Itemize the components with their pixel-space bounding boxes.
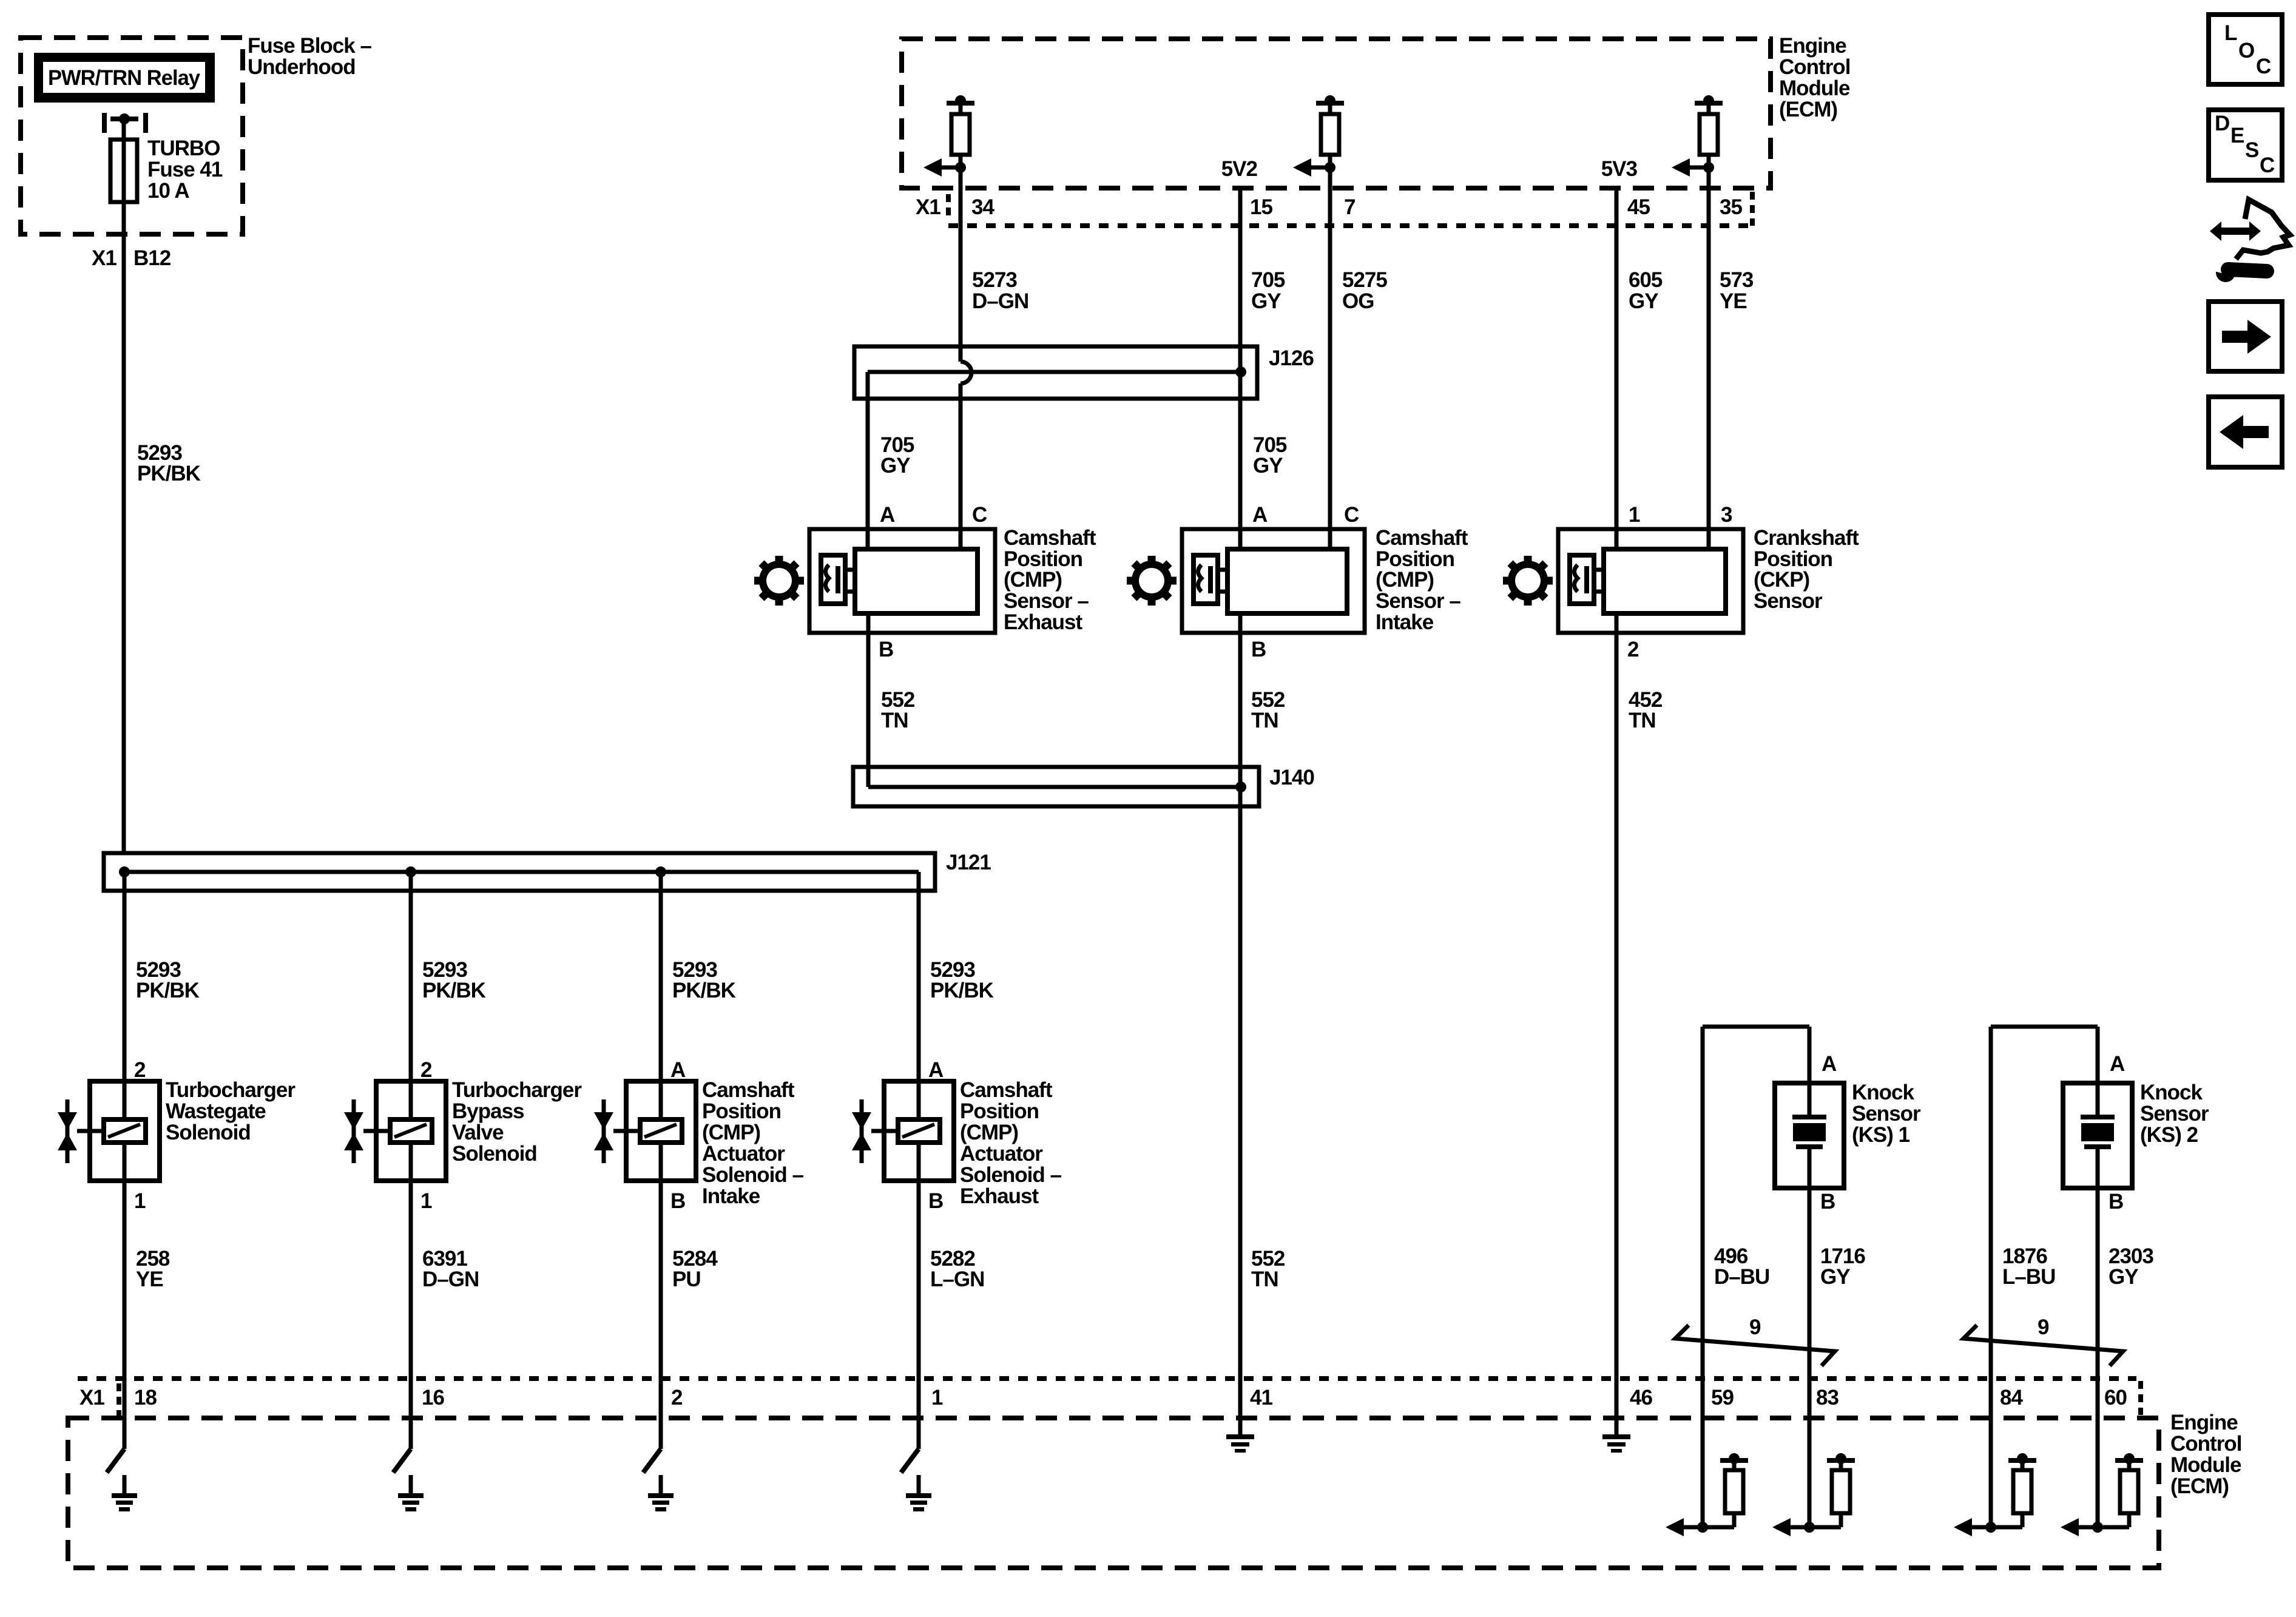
svg-text:45: 45 (1627, 195, 1650, 219)
svg-text:5V2: 5V2 (1221, 157, 1258, 181)
svg-text:GY: GY (1629, 289, 1658, 313)
splice J126 box (854, 346, 1257, 399)
svg-text:Solenoid –: Solenoid – (960, 1163, 1062, 1187)
J121 internal wire (124, 870, 919, 874)
svg-text:Position: Position (702, 1099, 781, 1123)
wire 6391 to ECM (409, 1181, 413, 1449)
solenoid turbocharger bypass valve solenoid (376, 1081, 446, 1181)
wire 705 GY (J126 to CMP intake A) (1238, 372, 1243, 549)
wire 5293 PK/BK drop 3 (659, 872, 663, 1081)
icon box DESC (2209, 110, 2282, 180)
svg-text:TN: TN (881, 709, 908, 732)
resistor R6 with arrow (pin 84) (1957, 1525, 2022, 1530)
svg-text:Camshaft: Camshaft (1004, 526, 1096, 550)
svg-text:(CKP): (CKP) (1754, 568, 1809, 592)
svg-text:18: 18 (134, 1386, 157, 1409)
J126 internal wire (868, 370, 1241, 374)
wire 452 TN (CKP pin 2 to ECM pin 46) (1615, 613, 1619, 1437)
svg-text:16: 16 (422, 1386, 444, 1409)
svg-text:J140: J140 (1269, 766, 1314, 789)
svg-text:YE: YE (1720, 289, 1747, 313)
svg-text:35: 35 (1720, 195, 1742, 219)
svg-text:Exhaust: Exhaust (960, 1184, 1039, 1208)
wire 552 TN (CMP intake B to J140 to ECM pin 41) (1238, 613, 1243, 1437)
wire 5293 PK/BK drop 1 (123, 872, 127, 1081)
wire 5275 OG (pin 7 to CMP intake C) (1328, 188, 1332, 549)
resistor R2 in ECM (pin 7 feed) (1316, 101, 1344, 106)
svg-text:B: B (2109, 1190, 2123, 1214)
svg-text:83: 83 (1816, 1386, 1838, 1409)
splice J121 box (104, 853, 935, 891)
svg-text:59: 59 (1711, 1386, 1734, 1409)
svg-text:Solenoid: Solenoid (166, 1121, 251, 1144)
svg-text:Fuse Block –: Fuse Block – (248, 34, 371, 58)
svg-text:(CMP): (CMP) (960, 1121, 1018, 1144)
svg-text:L–BU: L–BU (2002, 1265, 2055, 1289)
wire 705 GY (pin 15 to J126) (1238, 188, 1243, 372)
svg-text:C: C (1344, 503, 1359, 527)
svg-text:Valve: Valve (452, 1121, 504, 1144)
wire 5273 D-GN (pin 34 to CMP exhaust C) with hop (959, 188, 963, 362)
twisted pair symbol (KS2) (1963, 1325, 2123, 1366)
svg-text:2: 2 (1627, 638, 1639, 661)
svg-text:TN: TN (1251, 709, 1278, 732)
gear icon (CKP) (1511, 564, 1544, 597)
svg-text:Position: Position (960, 1099, 1039, 1123)
resistor R1 in ECM (pin 34 feed) (947, 101, 974, 106)
svg-text:Knock: Knock (2140, 1081, 2203, 1104)
svg-text:Solenoid –: Solenoid – (702, 1163, 804, 1187)
knock sensor KS1 body and wires (1703, 1025, 1809, 1029)
svg-text:C: C (2256, 55, 2271, 78)
svg-text:L–GN: L–GN (930, 1268, 984, 1291)
svg-text:PWR/TRN Relay: PWR/TRN Relay (48, 66, 201, 90)
svg-text:C: C (2260, 154, 2275, 177)
J121 junction node 3 (655, 866, 666, 877)
svg-text:2: 2 (134, 1058, 146, 1082)
svg-text:(CMP): (CMP) (1004, 568, 1062, 592)
wire 5293 from relay through fuse to J121 (122, 119, 126, 853)
svg-text:YE: YE (136, 1268, 163, 1291)
svg-text:GY: GY (880, 454, 910, 478)
svg-text:E: E (2230, 124, 2244, 147)
wire 5282 to ECM (917, 1181, 921, 1449)
svg-text:705: 705 (1251, 268, 1285, 292)
svg-text:O: O (2238, 39, 2254, 62)
svg-text:B: B (1820, 1190, 1835, 1214)
ECM bottom dashed box (68, 1418, 2159, 1568)
icon box back arrow (2209, 397, 2282, 467)
svg-text:3: 3 (1721, 503, 1732, 527)
svg-text:46: 46 (1630, 1386, 1652, 1409)
resistor R3 in ECM (pin 35 feed) (1695, 101, 1723, 106)
svg-text:GY: GY (2109, 1265, 2138, 1289)
svg-text:41: 41 (1250, 1386, 1272, 1409)
solenoid turbocharger wastegate solenoid (90, 1081, 160, 1181)
ECM top pin row right separator (1750, 192, 1755, 226)
gear icon (CMP exhaust) (763, 564, 795, 597)
svg-text:2: 2 (671, 1386, 683, 1409)
J140 junction node (1235, 781, 1246, 792)
svg-text:A: A (880, 503, 895, 527)
svg-text:A: A (1252, 503, 1268, 527)
resistor R5 with arrow (pin 83) (1776, 1525, 1841, 1530)
svg-text:Exhaust: Exhaust (1004, 610, 1082, 634)
svg-text:PK/BK: PK/BK (137, 462, 201, 485)
svg-text:D: D (2215, 112, 2229, 135)
svg-text:Sensor: Sensor (1754, 589, 1823, 613)
svg-text:Camshaft: Camshaft (702, 1078, 795, 1102)
splice J140 box (853, 767, 1259, 806)
svg-text:Actuator: Actuator (960, 1142, 1043, 1166)
ECM top pin row dotted line (948, 223, 1752, 228)
svg-text:(KS) 2: (KS) 2 (2140, 1123, 2198, 1147)
wire 258 to ECM (123, 1181, 127, 1449)
wire 605 GY (pin 45 to CKP pin 1) (1615, 188, 1619, 549)
svg-text:D–GN: D–GN (972, 289, 1028, 313)
svg-text:TURBO: TURBO (147, 137, 220, 160)
relay K PWR/TRN Relay box (34, 53, 215, 103)
ground (pin 41) (1238, 1418, 1243, 1437)
svg-text:9: 9 (1749, 1315, 1761, 1339)
svg-text:10 A: 10 A (147, 179, 189, 203)
fuse block - underhood dashed box (21, 38, 243, 234)
svg-text:Intake: Intake (1376, 610, 1434, 634)
svg-text:B: B (1251, 638, 1266, 661)
svg-text:Module: Module (2170, 1453, 2241, 1477)
svg-text:Fuse 41: Fuse 41 (147, 158, 223, 181)
ECM top pin row left separator (946, 194, 951, 217)
svg-text:(KS) 1: (KS) 1 (1852, 1123, 1910, 1147)
svg-text:GY: GY (1251, 289, 1281, 313)
solenoid CMP actuator solenoid exhaust (884, 1081, 954, 1181)
ground G4 (pin 1) (901, 1449, 919, 1473)
svg-text:A: A (2110, 1052, 2125, 1076)
svg-text:X1: X1 (79, 1386, 104, 1409)
svg-text:Camshaft: Camshaft (960, 1078, 1053, 1102)
wire 5293 PK/BK drop 4 (917, 872, 921, 1081)
svg-text:(ECM): (ECM) (2170, 1474, 2229, 1498)
svg-text:(ECM): (ECM) (1779, 98, 1837, 121)
svg-text:Camshaft: Camshaft (1376, 526, 1468, 550)
icon adjust (hand with wrench) (2236, 200, 2290, 259)
svg-text:B: B (879, 638, 893, 661)
svg-text:Module: Module (1779, 76, 1850, 100)
svg-text:J126: J126 (1269, 346, 1314, 370)
svg-text:Bypass: Bypass (452, 1099, 524, 1123)
svg-text:TN: TN (1629, 709, 1656, 732)
svg-text:D–BU: D–BU (1714, 1265, 1769, 1289)
sensor CKP body (1558, 529, 1743, 633)
J140 internal wire (868, 785, 1241, 789)
svg-text:S: S (2245, 138, 2258, 162)
icon box forward arrow (2209, 302, 2282, 371)
J126 junction node (1235, 366, 1246, 377)
svg-text:OG: OG (1342, 289, 1374, 313)
ECM bottom pin row left separator (116, 1383, 121, 1416)
svg-text:GY: GY (1253, 454, 1283, 478)
svg-text:D–GN: D–GN (422, 1268, 479, 1291)
svg-text:Sensor –: Sensor – (1004, 589, 1089, 613)
wire 5284 to ECM (659, 1181, 663, 1449)
svg-text:C: C (972, 503, 987, 527)
svg-text:1: 1 (931, 1386, 943, 1409)
svg-text:605: 605 (1629, 268, 1663, 292)
svg-text:573: 573 (1720, 268, 1754, 292)
ECM bottom pin row right separator (2138, 1381, 2143, 1415)
fuse F41 TURBO 10A (110, 140, 137, 202)
svg-text:Control: Control (1779, 55, 1850, 79)
sensor CMP Exhaust body (809, 529, 995, 633)
relay terminal bracket (102, 113, 107, 133)
svg-text:X1: X1 (92, 246, 116, 270)
sensor CMP Intake body (1182, 529, 1365, 633)
gear icon (CMP intake) (1135, 564, 1168, 597)
svg-text:Actuator: Actuator (702, 1142, 785, 1166)
svg-text:A: A (670, 1058, 686, 1082)
svg-text:5273: 5273 (972, 268, 1017, 292)
svg-text:(CMP): (CMP) (1376, 568, 1434, 592)
svg-text:B: B (670, 1189, 685, 1213)
svg-text:PK/BK: PK/BK (930, 979, 994, 1002)
resistor R7 with arrow (pin 60) (2064, 1525, 2129, 1530)
wire 705 GY (J126 to CMP exhaust A) (866, 372, 870, 549)
resistor R4 with arrow (pin 59) (1669, 1525, 1734, 1530)
svg-text:9: 9 (2038, 1315, 2049, 1339)
svg-text:5275: 5275 (1342, 268, 1387, 292)
svg-text:GY: GY (1820, 1265, 1850, 1289)
svg-text:PU: PU (672, 1268, 701, 1291)
svg-text:Knock: Knock (1852, 1081, 1915, 1104)
svg-text:34: 34 (971, 195, 994, 219)
ground G1 (pin 18) (107, 1449, 124, 1473)
svg-text:60: 60 (2104, 1386, 2127, 1409)
svg-text:Wastegate: Wastegate (166, 1099, 266, 1123)
svg-text:PK/BK: PK/BK (672, 979, 736, 1002)
svg-text:Intake: Intake (702, 1184, 760, 1208)
svg-text:Engine: Engine (1779, 34, 1846, 58)
svg-text:Turbocharger: Turbocharger (166, 1078, 295, 1102)
ground G3 (pin 2) (643, 1449, 661, 1473)
svg-text:L: L (2224, 21, 2237, 45)
svg-text:A: A (928, 1058, 944, 1082)
svg-text:7: 7 (1344, 195, 1355, 219)
ECM bottom pin row dotted line (78, 1376, 2136, 1381)
J121 junction node 1 (119, 866, 130, 877)
wire 552 TN (CMP exhaust B to J140) (866, 613, 871, 787)
svg-text:X1: X1 (916, 195, 940, 219)
svg-text:Engine: Engine (2170, 1411, 2238, 1434)
ground (pin 46) (1615, 1418, 1619, 1437)
ECM top dashed box (902, 39, 1771, 188)
svg-text:Sensor –: Sensor – (1376, 589, 1460, 613)
svg-text:Crankshaft: Crankshaft (1754, 526, 1859, 550)
svg-text:15: 15 (1250, 195, 1272, 219)
svg-text:Sensor: Sensor (2140, 1102, 2209, 1126)
svg-text:Sensor: Sensor (1852, 1102, 1921, 1126)
svg-text:B12: B12 (133, 246, 171, 270)
svg-text:TN: TN (1251, 1268, 1278, 1291)
icon box LOC (2209, 15, 2282, 84)
svg-text:Solenoid: Solenoid (452, 1142, 537, 1166)
svg-text:A: A (1822, 1052, 1837, 1076)
svg-text:1: 1 (134, 1189, 146, 1213)
svg-text:Turbocharger: Turbocharger (452, 1078, 582, 1102)
knock sensor KS2 body and wires (1991, 1025, 2098, 1029)
svg-text:84: 84 (2000, 1386, 2023, 1409)
J121 junction node 2 (405, 866, 416, 877)
svg-text:5V3: 5V3 (1601, 157, 1638, 181)
svg-text:Underhood: Underhood (248, 55, 356, 79)
twisted pair symbol (KS1) (1675, 1325, 1835, 1366)
svg-text:(CMP): (CMP) (702, 1121, 760, 1144)
svg-text:Control: Control (2170, 1432, 2241, 1456)
wire 5293 PK/BK drop 2 (409, 872, 413, 1081)
svg-text:B: B (928, 1189, 943, 1213)
solenoid CMP actuator solenoid intake (626, 1081, 696, 1181)
svg-text:1: 1 (420, 1189, 432, 1213)
svg-text:1: 1 (1629, 503, 1640, 527)
svg-text:PK/BK: PK/BK (422, 979, 486, 1002)
wire 573 YE (pin 35 to CKP pin 3) (1707, 188, 1711, 549)
svg-text:J121: J121 (946, 851, 991, 874)
svg-text:PK/BK: PK/BK (136, 979, 200, 1002)
ground G2 (pin 16) (393, 1449, 411, 1473)
svg-text:2: 2 (420, 1058, 432, 1082)
